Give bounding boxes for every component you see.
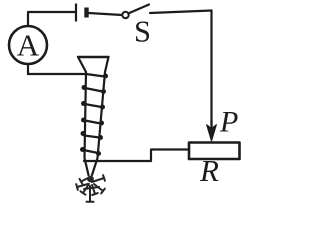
pins cluster at screw tip — [76, 175, 105, 202]
wire (coil to rheostat with step) — [84, 150, 189, 162]
rheostat R1 body — [189, 143, 240, 160]
coil loop left 5 — [80, 147, 85, 152]
coil turn 2 — [85, 88, 103, 92]
wire top-left (ammeter top to battery) — [28, 12, 75, 26]
battery B1 long plate (+) — [75, 4, 77, 22]
coil loop right 2 — [101, 89, 106, 94]
coil loop right 5 — [98, 135, 103, 140]
switch S blade (open) — [129, 5, 149, 14]
ammeter A1 — [9, 26, 47, 64]
svg-text:R: R — [199, 153, 219, 188]
screw head top — [78, 56, 109, 58]
coil loop right 1 — [103, 74, 108, 79]
battery B1 short plate (-) — [84, 8, 88, 18]
coil turn 3 — [85, 104, 102, 107]
coil turn 4 — [85, 121, 101, 124]
screw shaft right edge — [92, 72, 105, 175]
wire right vertical — [210, 11, 212, 127]
switch S pivot — [122, 12, 128, 18]
svg-text:P: P — [219, 106, 238, 139]
wire (ammeter bottom lead) — [27, 64, 29, 74]
arrow slider P — [210, 120, 212, 134]
wire (ammeter to coil) — [28, 73, 86, 75]
coil turn 6 — [84, 150, 99, 153]
svg-text:S: S — [134, 15, 151, 49]
coil loop left 4 — [81, 131, 86, 136]
coil loop left 3 — [81, 118, 86, 123]
coil loop right 3 — [100, 105, 105, 110]
coil loop left 1 — [82, 85, 87, 90]
wire (switch to top-right corner) — [150, 11, 212, 14]
coil turn 5 — [84, 136, 100, 138]
screw shaft left edge — [85, 72, 89, 175]
wire (battery to switch) — [89, 13, 123, 15]
screw head right flare — [105, 57, 109, 72]
screw head left flare — [78, 57, 86, 72]
coil loop right 6 — [96, 151, 101, 156]
svg-text:A: A — [17, 28, 40, 63]
coil turn 1 — [86, 74, 105, 77]
coil loop left 2 — [81, 101, 86, 106]
coil loop right 4 — [99, 121, 104, 126]
